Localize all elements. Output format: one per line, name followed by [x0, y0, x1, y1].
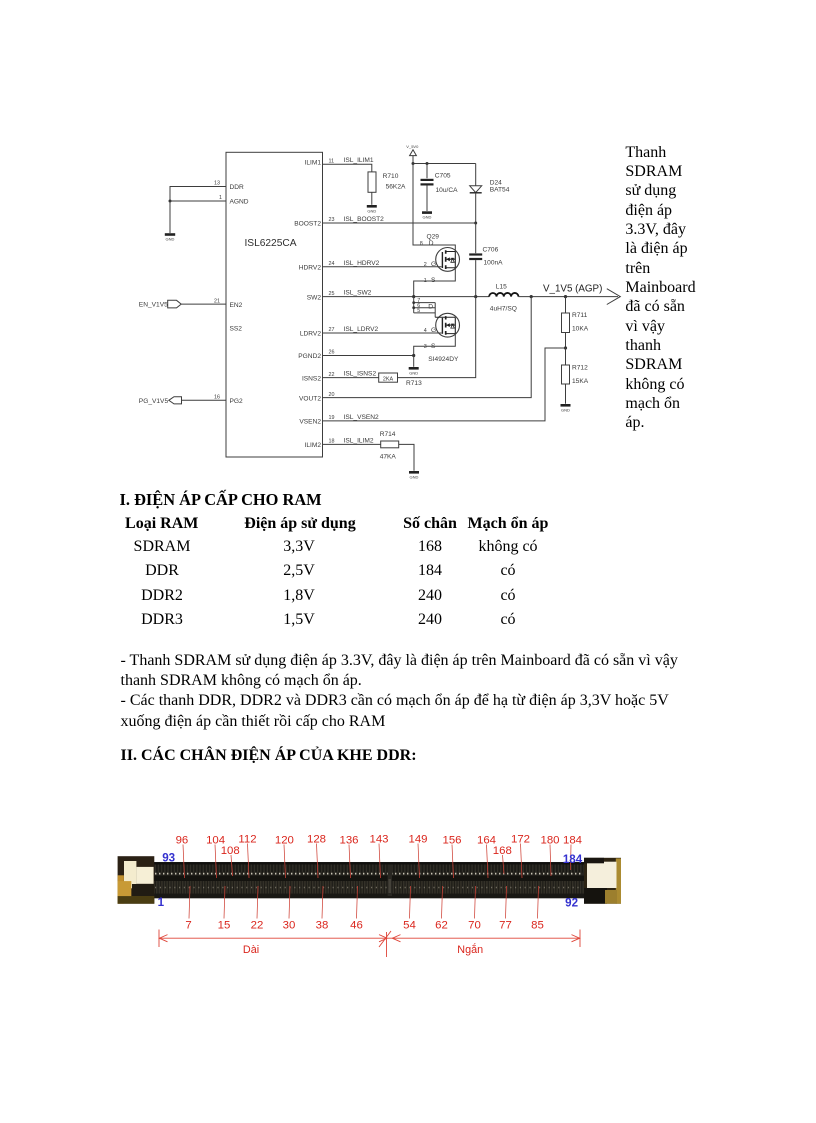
- svg-text:LDRV2: LDRV2: [300, 331, 321, 338]
- wire PG2 pin 16: [182, 394, 227, 400]
- svg-text:R711: R711: [572, 312, 588, 319]
- diode D24 BAT54: [470, 164, 510, 224]
- ground under R710: [367, 205, 377, 213]
- table row DDR: [122, 561, 202, 581]
- ground under PGND2: [409, 356, 419, 376]
- svg-text:149: 149: [408, 834, 427, 846]
- svg-text:2: 2: [424, 262, 427, 268]
- wire ISL_HDRV2 pin 24: [323, 260, 442, 267]
- node R711/R712 junction: [564, 346, 567, 349]
- svg-text:ISL_SW2: ISL_SW2: [344, 290, 372, 297]
- svg-text:47KA: 47KA: [380, 454, 397, 461]
- node V_1V5 (AGP) output: [518, 284, 620, 305]
- resistor R710 56K2A: [368, 172, 406, 205]
- leader line 46: [357, 886, 358, 919]
- leader line 143: [379, 844, 381, 879]
- svg-text:ISNS2: ISNS2: [302, 375, 321, 382]
- svg-text:184: 184: [563, 835, 582, 847]
- node EN_V1V5 input tag: [139, 300, 181, 308]
- key notch: [388, 865, 392, 897]
- resistor R712 15KA: [562, 348, 589, 404]
- leader line 149: [418, 844, 420, 879]
- svg-text:C706: C706: [483, 247, 499, 254]
- svg-text:180: 180: [540, 835, 559, 847]
- svg-text:GND: GND: [166, 237, 175, 242]
- svg-text:21: 21: [214, 298, 220, 304]
- wire R713 to SW2 node: [398, 297, 476, 378]
- svg-text:15KA: 15KA: [572, 378, 589, 385]
- svg-text:18: 18: [329, 439, 335, 445]
- svg-text:V_1V5 (AGP): V_1V5 (AGP): [543, 284, 602, 295]
- transistor Q28 lower MOSFET SI4924DY: [412, 297, 459, 363]
- svg-text:PGND2: PGND2: [298, 353, 321, 360]
- ground under R712: [561, 404, 571, 412]
- svg-text:70: 70: [468, 920, 481, 932]
- heading II: [121, 746, 417, 766]
- svg-text:2KA: 2KA: [383, 377, 394, 383]
- leader line 156: [452, 845, 454, 879]
- svg-text:D: D: [429, 240, 434, 247]
- leader line 96: [183, 845, 185, 879]
- leader line 38: [322, 886, 323, 919]
- svg-text:D24: D24: [490, 179, 502, 186]
- svg-text:ILIM2: ILIM2: [305, 442, 322, 449]
- DDR slot photo: [118, 856, 621, 904]
- leader line 62: [442, 886, 443, 919]
- leader line 30: [289, 886, 290, 919]
- leader line 136: [349, 845, 351, 879]
- svg-text:ISL_ILIM1: ISL_ILIM1: [344, 157, 374, 164]
- paragraph 1: [121, 651, 761, 733]
- leader line 112: [248, 844, 250, 879]
- svg-text:156: 156: [442, 835, 461, 847]
- capacitor C705 10u/CA: [421, 164, 459, 212]
- svg-text:ISL6225CA: ISL6225CA: [244, 238, 296, 249]
- svg-text:EN_V1V5: EN_V1V5: [139, 302, 168, 309]
- svg-text:4uH7/SQ: 4uH7/SQ: [490, 306, 517, 313]
- wire R714 to ground: [399, 444, 414, 470]
- wire DDR pin 13: [170, 181, 226, 202]
- svg-text:DDR: DDR: [230, 184, 245, 191]
- pin numbers blue corners: [158, 851, 583, 909]
- wire ISL_ILIM1 pin 11: [323, 157, 374, 172]
- svg-text:22: 22: [329, 372, 335, 378]
- table row DDR3: [122, 610, 202, 630]
- ground under R714: [409, 471, 419, 479]
- svg-text:ISL_LDRV2: ISL_LDRV2: [344, 326, 379, 333]
- wire ISL_BOOST2 pin 23: [323, 216, 478, 225]
- wire V5 rail: [412, 162, 476, 165]
- svg-text:96: 96: [176, 835, 189, 847]
- heading I: [120, 490, 322, 510]
- svg-text:PG2: PG2: [230, 398, 244, 405]
- svg-text:92: 92: [565, 897, 578, 910]
- svg-text:128: 128: [307, 834, 326, 846]
- svg-text:62: 62: [435, 920, 448, 932]
- resistor R713 2KA: [379, 373, 422, 387]
- svg-text:19: 19: [329, 415, 335, 421]
- svg-text:Ngắn: Ngắn: [457, 943, 483, 956]
- svg-text:10u/CA: 10u/CA: [436, 187, 459, 194]
- svg-text:172: 172: [511, 834, 530, 846]
- leader line 168: [503, 855, 505, 874]
- svg-text:SI4924DY: SI4924DY: [428, 356, 459, 363]
- wire VOUT2 pin 20: [323, 297, 532, 398]
- svg-text:V_5V0: V_5V0: [406, 144, 419, 149]
- node AGND junction: [169, 200, 172, 203]
- leader line 172: [521, 844, 523, 879]
- svg-text:10KA: 10KA: [572, 326, 589, 333]
- svg-text:7: 7: [185, 920, 191, 932]
- svg-text:112: 112: [238, 834, 256, 846]
- svg-text:GND: GND: [409, 370, 418, 375]
- svg-text:30: 30: [283, 920, 296, 932]
- wire V5 to Q29 drain: [413, 164, 455, 252]
- svg-text:24: 24: [329, 261, 335, 267]
- svg-text:11: 11: [329, 158, 335, 164]
- wire Q28 source to PGND2: [414, 334, 456, 356]
- right column note text: [625, 143, 725, 433]
- leader line 128: [317, 844, 319, 879]
- svg-text:R710: R710: [383, 173, 399, 180]
- leader line 184: [570, 845, 573, 871]
- svg-text:56K2A: 56K2A: [386, 183, 406, 190]
- inductor L15 4uH7/SQ: [489, 284, 518, 313]
- svg-text:BAT54: BAT54: [490, 186, 510, 193]
- svg-text:C705: C705: [435, 172, 451, 179]
- leader line 120: [284, 845, 286, 879]
- pin numbers top row (red): [176, 834, 582, 858]
- svg-text:PG_V1V5: PG_V1V5: [139, 398, 169, 405]
- table row SDRAM: [122, 537, 202, 557]
- svg-text:25: 25: [329, 291, 335, 297]
- IC U1 ISL6225CA: [226, 152, 323, 457]
- power V_5V0: [406, 144, 419, 164]
- svg-text:SW2: SW2: [307, 294, 322, 301]
- svg-text:136: 136: [339, 835, 358, 847]
- wire ISL_VSEN2 pin 19: [323, 348, 566, 421]
- svg-text:Dài: Dài: [243, 944, 259, 956]
- svg-text:100nA: 100nA: [484, 260, 504, 267]
- node PG_V1V5 output tag: [139, 397, 182, 405]
- svg-text:S: S: [431, 277, 436, 284]
- svg-text:GND: GND: [423, 215, 432, 220]
- leader line 104: [215, 845, 217, 879]
- wire ISL_LDRV2 pin 27: [323, 326, 442, 333]
- leader line 164: [487, 845, 489, 879]
- svg-text:23: 23: [329, 217, 335, 223]
- capacitor C706 100nA: [469, 223, 503, 297]
- svg-text:20: 20: [329, 392, 335, 398]
- svg-text:GND: GND: [410, 474, 419, 479]
- svg-text:ISL_HDRV2: ISL_HDRV2: [344, 260, 380, 267]
- svg-text:108: 108: [221, 845, 240, 857]
- svg-text:27: 27: [329, 327, 335, 333]
- svg-text:R713: R713: [406, 380, 422, 387]
- svg-text:VSEN2: VSEN2: [299, 419, 321, 426]
- svg-text:HDRV2: HDRV2: [299, 265, 322, 272]
- svg-text:BOOST2: BOOST2: [294, 221, 321, 228]
- svg-text:46: 46: [350, 920, 363, 932]
- svg-text:54: 54: [403, 920, 416, 932]
- wire ISL_SW2 pin 25: [323, 290, 490, 299]
- svg-text:8: 8: [420, 241, 423, 247]
- svg-text:22: 22: [251, 920, 264, 932]
- right latch block: [584, 858, 621, 904]
- svg-text:GND: GND: [561, 407, 570, 412]
- wire Q29 source to SW2: [414, 268, 456, 297]
- pin numbers bottom row (red): [185, 920, 544, 932]
- dimension arrows Dai / Ngan: [159, 930, 580, 958]
- svg-text:1: 1: [158, 896, 165, 909]
- svg-text:77: 77: [499, 920, 512, 932]
- leader line 77: [506, 886, 507, 919]
- leader line 22: [257, 886, 258, 919]
- svg-text:143: 143: [369, 834, 388, 846]
- leader line 70: [475, 886, 476, 919]
- slot body: [150, 862, 586, 898]
- svg-text:13: 13: [214, 181, 220, 187]
- svg-text:L15: L15: [496, 284, 507, 291]
- resistor R711 10KA: [562, 297, 589, 348]
- svg-text:168: 168: [493, 845, 512, 857]
- svg-text:38: 38: [316, 920, 329, 932]
- svg-text:ISL_VSEN2: ISL_VSEN2: [344, 414, 380, 421]
- svg-text:16: 16: [214, 394, 220, 400]
- svg-text:120: 120: [275, 835, 294, 847]
- svg-text:ISL_ISNS2: ISL_ISNS2: [344, 371, 377, 378]
- resistor R714 47KA: [380, 431, 399, 461]
- svg-text:R714: R714: [380, 431, 396, 438]
- leader line 108: [231, 855, 233, 876]
- svg-text:15: 15: [218, 920, 231, 932]
- svg-text:93: 93: [162, 851, 175, 864]
- svg-text:SS2: SS2: [230, 326, 243, 333]
- svg-text:VOUT2: VOUT2: [299, 395, 321, 402]
- transistor Q29 upper MOSFET: [420, 234, 460, 284]
- svg-text:1: 1: [219, 195, 222, 201]
- wire PGND2 pin 26: [323, 350, 416, 357]
- leader line 85: [538, 886, 539, 919]
- svg-text:ISL_ILIM2: ISL_ILIM2: [344, 437, 374, 444]
- leader line 7: [189, 886, 190, 919]
- wire ISL_ILIM2 pin 18: [323, 437, 381, 444]
- svg-text:26: 26: [329, 350, 335, 356]
- ground under C705: [422, 211, 432, 219]
- svg-text:EN2: EN2: [230, 302, 243, 309]
- svg-text:ILIM1: ILIM1: [305, 160, 322, 167]
- svg-text:184: 184: [563, 853, 583, 866]
- svg-text:D: D: [428, 303, 433, 310]
- svg-text:ISL_BOOST2: ISL_BOOST2: [344, 216, 385, 223]
- wire EN2 pin 21: [181, 298, 226, 304]
- svg-text:AGND: AGND: [230, 199, 249, 206]
- wire ISL_ISNS2 pin 22: [323, 371, 379, 378]
- table header row: [123, 514, 201, 534]
- left latch block: [118, 856, 155, 904]
- leader line 15: [224, 886, 225, 919]
- svg-text:GND: GND: [367, 208, 376, 213]
- leader line 180: [550, 845, 551, 877]
- svg-text:5: 5: [417, 308, 420, 314]
- wire AGND pin 1: [170, 195, 226, 201]
- svg-text:R712: R712: [572, 365, 588, 372]
- leader line 54: [410, 886, 411, 919]
- table row DDR2: [122, 586, 202, 606]
- wire to ground: [169, 201, 171, 233]
- svg-text:85: 85: [531, 920, 544, 932]
- ground: [165, 233, 175, 242]
